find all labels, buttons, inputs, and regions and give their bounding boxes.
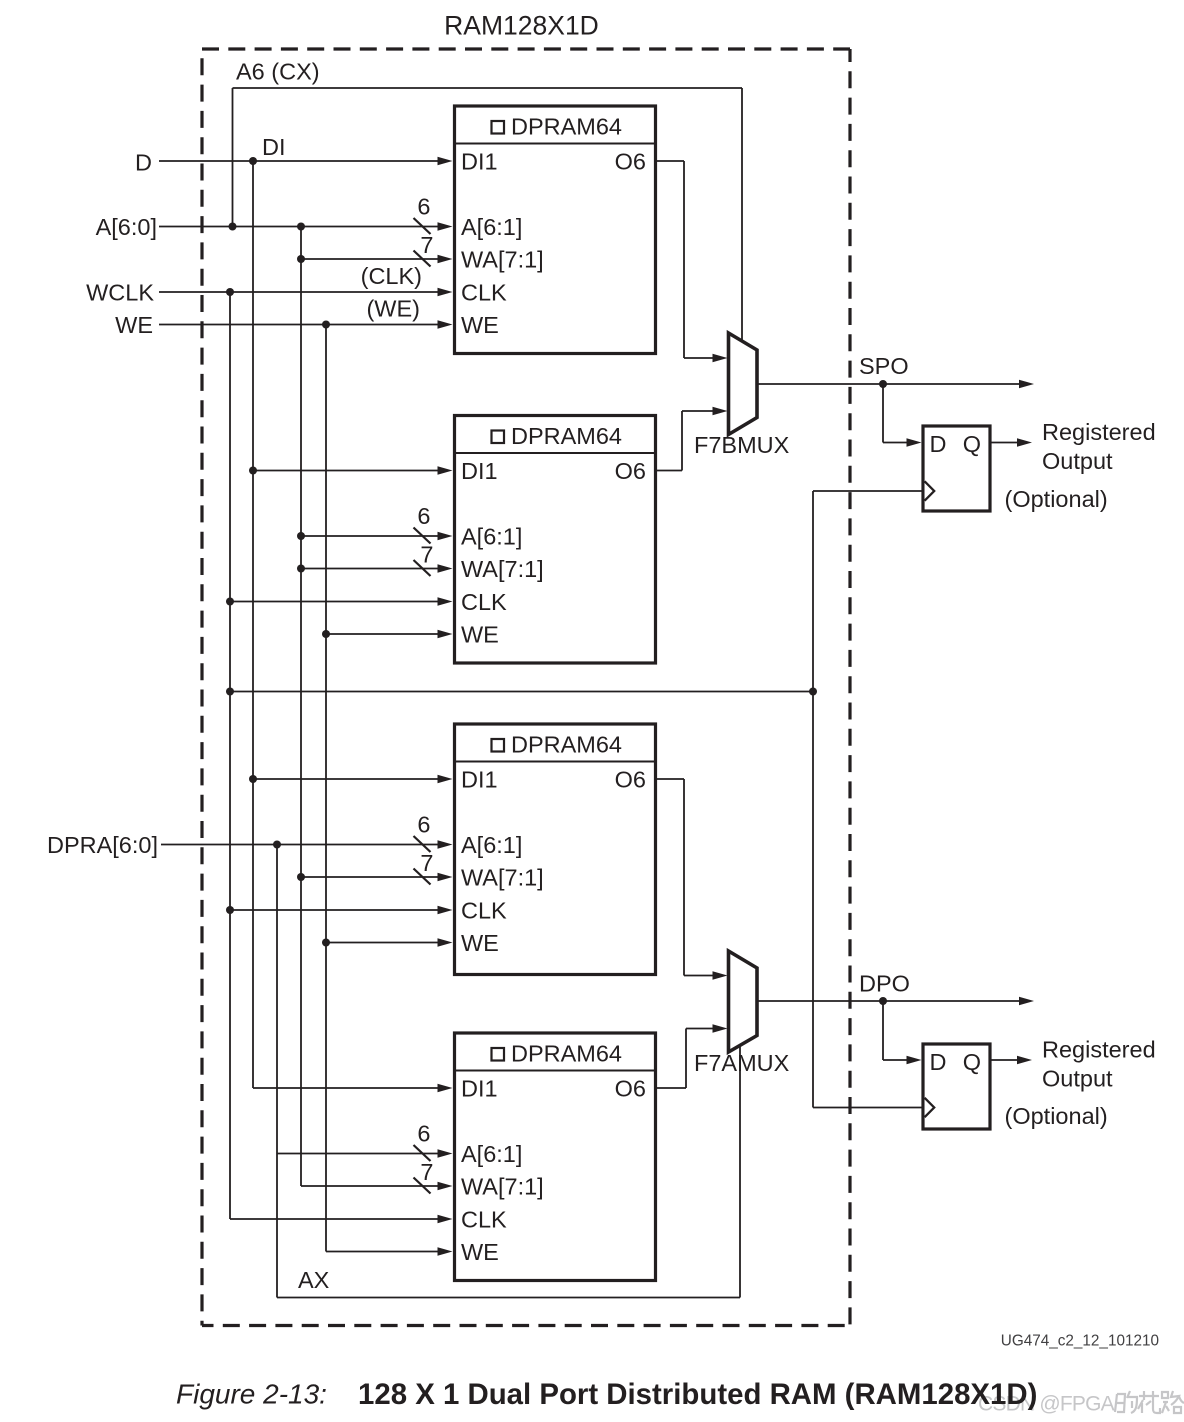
- svg-text:SPO: SPO: [859, 353, 909, 379]
- wire FF1 clock stub: [813, 490, 922, 492]
- wire A6 vertical riser: [232, 88, 234, 227]
- dpram U1 header square: [492, 121, 505, 134]
- svg-text:7: 7: [420, 850, 433, 876]
- svg-text:Output: Output: [1042, 448, 1113, 474]
- dpram U4 header divider: [455, 1070, 656, 1072]
- svg-text:WE: WE: [461, 622, 499, 648]
- wire DI trunk vertical: [252, 161, 254, 1088]
- bus slash 7 into U1 WA[7:1]: [414, 251, 431, 267]
- wire FF2 clock stub: [813, 1107, 922, 1109]
- wire U2 CLK stub: [230, 601, 440, 603]
- svg-text:WE: WE: [461, 930, 499, 956]
- wire A[6:0] input: [159, 226, 440, 228]
- svg-text:DI1: DI1: [461, 458, 498, 484]
- wire U3 CLK stub: [230, 909, 440, 911]
- svg-text:WA[7:1]: WA[7:1]: [461, 865, 544, 891]
- svg-text:A6 (CX): A6 (CX): [236, 59, 320, 85]
- svg-text:UG474_c2_12_101210: UG474_c2_12_101210: [1001, 1333, 1159, 1350]
- svg-text:A[6:0]: A[6:0]: [96, 214, 157, 240]
- svg-text:CLK: CLK: [461, 1207, 507, 1233]
- svg-text:CLK: CLK: [461, 589, 507, 615]
- wire FF clock trunk vertical: [812, 491, 814, 1108]
- mux F7BMUX: [729, 333, 758, 435]
- node WE trunk tap: [322, 321, 330, 329]
- wire FF1 Q output: [990, 442, 1028, 444]
- dpram U2 header square: [492, 431, 505, 444]
- svg-text:O6: O6: [615, 149, 646, 175]
- node DPO junction: [879, 997, 887, 1005]
- svg-text:RAM128X1D: RAM128X1D: [444, 11, 599, 41]
- wire SPO to FF1 D: [882, 384, 884, 443]
- wire U4 WE stub: [326, 1251, 440, 1253]
- wire U4 CLK stub: [230, 1218, 440, 1220]
- svg-text:WA[7:1]: WA[7:1]: [461, 247, 544, 273]
- wire U2 WA[7:1] stub: [301, 568, 440, 570]
- svg-text:DI1: DI1: [461, 767, 498, 793]
- svg-text:DPRAM64: DPRAM64: [511, 114, 622, 140]
- dpram U1 header divider: [455, 143, 656, 145]
- mux F7AMUX: [729, 951, 758, 1052]
- svg-text:DPRAM64: DPRAM64: [511, 1041, 622, 1067]
- svg-text:O6: O6: [615, 458, 646, 484]
- bus slash 7 into U3 WA[7:1]: [414, 869, 431, 885]
- wire DPRA[6:0] input: [161, 844, 440, 846]
- dpram U3 DPRAM64 block: [455, 724, 656, 975]
- wire U2 O6 to F7BMUX: [656, 470, 683, 472]
- svg-text:DI1: DI1: [461, 1076, 498, 1102]
- svg-text:Q: Q: [963, 431, 981, 457]
- wire U4 A[6:1] stub: [277, 1153, 440, 1155]
- node A6 select tap: [229, 223, 237, 231]
- svg-text:A[6:1]: A[6:1]: [461, 832, 522, 858]
- svg-text:DPO: DPO: [859, 971, 910, 997]
- svg-text:WCLK: WCLK: [86, 280, 154, 306]
- wire AX horizontal run: [277, 1297, 740, 1299]
- node DI junction: [249, 157, 257, 165]
- svg-text:O6: O6: [615, 1076, 646, 1102]
- svg-text:6: 6: [417, 503, 430, 529]
- svg-text:Q: Q: [963, 1049, 981, 1075]
- svg-text:DPRAM64: DPRAM64: [511, 732, 622, 758]
- svg-text:F7BMUX: F7BMUX: [694, 432, 790, 458]
- svg-text:128 X 1 Dual Port Distributed: 128 X 1 Dual Port Distributed RAM (RAM12…: [358, 1378, 1037, 1411]
- svg-text:6: 6: [417, 1121, 430, 1147]
- dpram U4 DPRAM64 block: [455, 1033, 656, 1281]
- dpram U4 header square: [492, 1048, 505, 1061]
- wire FF2 Q output: [990, 1059, 1028, 1061]
- flip-flop FF1: [923, 426, 990, 511]
- svg-text:(CLK): (CLK): [361, 263, 422, 289]
- svg-text:CLK: CLK: [461, 280, 507, 306]
- svg-text:(Optional): (Optional): [1005, 486, 1108, 512]
- dpram U3 header square: [492, 739, 505, 752]
- node WCLK-FF tap left: [226, 688, 234, 696]
- dpram U3 header divider: [455, 761, 656, 763]
- svg-text:DI: DI: [262, 134, 286, 160]
- svg-text:F7AMUX: F7AMUX: [694, 1050, 790, 1076]
- svg-text:7: 7: [420, 232, 433, 258]
- svg-text:Registered: Registered: [1042, 419, 1156, 445]
- wire U2 WE stub: [326, 633, 440, 635]
- wire U4 WA[7:1] stub: [301, 1185, 440, 1187]
- wire U2 A[6:1] stub: [301, 535, 440, 537]
- wire A trunk vertical: [300, 227, 302, 1187]
- wire WCLK input: [159, 291, 440, 293]
- node A trunk tap: [297, 223, 305, 231]
- svg-text:A[6:1]: A[6:1]: [461, 214, 522, 240]
- svg-text:(WE): (WE): [366, 296, 420, 322]
- wire U2 DI1 stub: [253, 470, 440, 472]
- bus slash 7 into U4 WA[7:1]: [414, 1178, 431, 1194]
- svg-text:AX: AX: [298, 1267, 330, 1293]
- svg-text:DPRAM64: DPRAM64: [511, 423, 622, 449]
- dpram U1 DPRAM64 block: [455, 106, 656, 354]
- svg-text:DI1: DI1: [461, 149, 498, 175]
- wire U3 WA[7:1] stub: [301, 876, 440, 878]
- wire U1 WA[7:1] stub: [301, 258, 440, 260]
- svg-text:Output: Output: [1042, 1066, 1113, 1092]
- wire U3 DI1 stub: [253, 778, 440, 780]
- wire U1 O6 to F7BMUX: [656, 160, 685, 162]
- bus slash 6 into U1 A[6:1]: [414, 218, 431, 234]
- wire DPO output: [757, 1000, 1030, 1002]
- flip-flop FF1 clock triangle: [925, 481, 935, 500]
- flip-flop FF2 clock triangle: [925, 1098, 935, 1117]
- bus slash 6 into U2 A[6:1]: [414, 528, 431, 544]
- wire A6 horizontal run: [233, 87, 743, 89]
- svg-text:O6: O6: [615, 767, 646, 793]
- wire WCLK to FF clocks horizontal: [230, 691, 813, 693]
- wire SPO output: [757, 383, 1030, 385]
- svg-text:DPRA[6:0]: DPRA[6:0]: [47, 832, 158, 858]
- svg-text:D: D: [930, 431, 947, 457]
- svg-text:D: D: [930, 1049, 947, 1075]
- wire WCLK trunk vertical: [229, 292, 231, 1219]
- svg-text:WE: WE: [461, 1239, 499, 1265]
- dpram U2 DPRAM64 block: [455, 416, 656, 664]
- svg-text:Figure 2-13:: Figure 2-13:: [176, 1379, 327, 1410]
- wire U3 O6 to F7AMUX: [656, 778, 685, 780]
- dpram U2 header divider: [455, 452, 656, 454]
- wire WE trunk vertical: [325, 325, 327, 1252]
- bus slash 7 into U2 WA[7:1]: [414, 560, 431, 576]
- svg-text:WE: WE: [115, 312, 153, 338]
- bus slash 6 into U4 A[6:1]: [414, 1145, 431, 1161]
- svg-text:CLK: CLK: [461, 898, 507, 924]
- wire A6 select drop to F7BMUX: [741, 88, 743, 342]
- wire D input: [159, 160, 440, 162]
- wire DPRA/AX trunk vertical: [276, 845, 278, 1298]
- CLB boundary (dashed box): [202, 49, 850, 1326]
- svg-text:D: D: [135, 150, 152, 176]
- svg-text:(Optional): (Optional): [1005, 1103, 1108, 1129]
- svg-text:7: 7: [420, 542, 433, 568]
- svg-text:WA[7:1]: WA[7:1]: [461, 556, 544, 582]
- flip-flop FF2: [923, 1044, 990, 1129]
- wire DPO to FF2 D: [882, 1001, 884, 1060]
- node WCLK trunk tap: [226, 288, 234, 296]
- svg-text:6: 6: [417, 194, 430, 220]
- wire U4 DI1 stub: [253, 1087, 440, 1089]
- svg-text:6: 6: [417, 812, 430, 838]
- svg-text:Registered: Registered: [1042, 1037, 1156, 1063]
- svg-text:WA[7:1]: WA[7:1]: [461, 1174, 544, 1200]
- svg-text:7: 7: [420, 1159, 433, 1185]
- wire AX select riser to F7AMUX: [739, 1046, 741, 1298]
- node WCLK-FF tap right: [809, 688, 817, 696]
- wire WE input: [159, 324, 440, 326]
- svg-text:A[6:1]: A[6:1]: [461, 524, 522, 550]
- bus slash 6 into U3 A[6:1]: [414, 836, 431, 852]
- wire U3 WE stub: [326, 942, 440, 944]
- node DPRA trunk tap: [273, 841, 281, 849]
- node SPO junction: [879, 380, 887, 388]
- wire U4 O6 to F7AMUX: [656, 1087, 687, 1089]
- svg-text:WE: WE: [461, 312, 499, 338]
- svg-text:A[6:1]: A[6:1]: [461, 1141, 522, 1167]
